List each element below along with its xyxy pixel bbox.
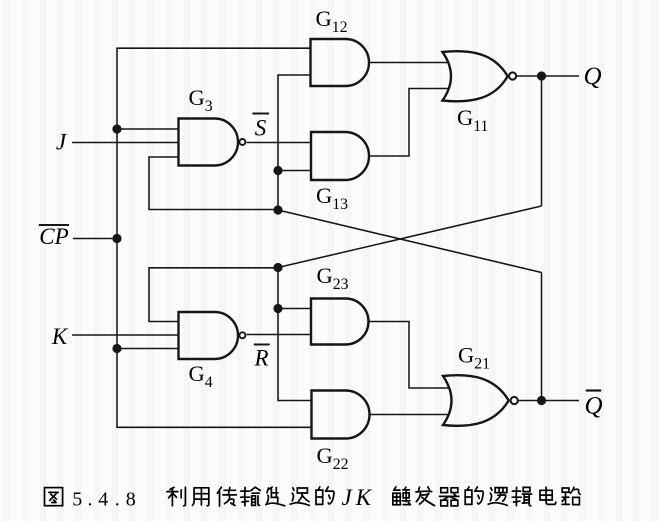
svg-text:.: . <box>88 489 93 511</box>
wire G12 output to G11 <box>369 62 449 64</box>
label K input <box>51 324 69 349</box>
nor-gate G11 <box>443 51 517 101</box>
wire Qbar-net vertical <box>278 75 310 210</box>
wire CP tap to G3 <box>117 128 179 130</box>
node Qbar-net G13 junction <box>273 166 282 175</box>
wire Q output <box>517 75 579 77</box>
label G21 <box>458 343 490 373</box>
svg-text:CP: CP <box>39 224 68 249</box>
label G13 <box>316 183 348 213</box>
node CP junction <box>112 234 121 243</box>
wire J input <box>72 142 179 144</box>
wire R-bar from G4 to G23 <box>247 334 311 336</box>
label G11 <box>457 105 488 135</box>
node CP-G4 junction <box>112 344 121 353</box>
and-gate G22 <box>312 391 370 439</box>
wire Q-bar output <box>519 400 580 402</box>
label G23 <box>317 263 349 293</box>
node Q-bar output junction <box>537 396 546 405</box>
wire CP to G12 top input <box>117 47 310 49</box>
wire S-bar from G3 to G13 <box>247 142 311 144</box>
wire CP to G22 bottom input <box>117 426 312 428</box>
wire CP left rail <box>116 48 118 429</box>
and-gate G23 <box>311 299 369 345</box>
nand-gate G4 <box>179 312 246 359</box>
label S-bar <box>252 114 269 141</box>
wire G22 output to G21 <box>370 414 449 416</box>
wire Qbar vertical to output node <box>541 273 543 402</box>
wire K input <box>72 334 179 336</box>
label Q-bar output <box>584 391 602 420</box>
svg-text:Q: Q <box>584 393 602 420</box>
svg-text:K: K <box>51 324 69 349</box>
label Q output <box>583 63 601 90</box>
wire Qbar diagonal crossover <box>278 210 542 273</box>
wire Q diagonal crossover <box>278 206 542 268</box>
label G22 <box>317 443 349 473</box>
node Q-net feedback junction <box>273 263 282 272</box>
node Q output junction <box>537 71 546 80</box>
label G4 <box>189 361 213 391</box>
wire G23 output to G21 <box>370 322 449 389</box>
wire G3 feedback loop <box>149 157 278 210</box>
label R-bar <box>253 345 269 371</box>
wire Qbar-net to G13 lower input <box>278 170 311 172</box>
label G12 <box>316 6 348 36</box>
nand-gate G3 <box>179 119 246 166</box>
wire Q-net to G23 upper input <box>278 308 311 310</box>
svg-text:JK: JK <box>342 485 376 510</box>
svg-text:Q: Q <box>583 63 601 90</box>
wire CP input <box>73 238 117 240</box>
and-gate G12 <box>311 39 369 86</box>
svg-text:R: R <box>253 346 268 371</box>
svg-text:.: . <box>115 489 120 511</box>
wire CP tap to G4 <box>117 348 179 350</box>
svg-text:S: S <box>255 116 267 141</box>
node Qbar-net feedback junction <box>273 205 282 214</box>
label CP input <box>39 224 69 249</box>
svg-text:8: 8 <box>126 489 136 511</box>
label J input <box>56 130 68 155</box>
wire Q vertical to output node <box>541 76 543 206</box>
wire G13 output to G11 <box>369 89 448 157</box>
wire G4 feedback loop <box>149 268 278 322</box>
svg-text:4: 4 <box>98 489 108 511</box>
wire Q-net vertical <box>278 268 312 401</box>
nor-gate G21 <box>443 375 518 426</box>
node Q-net G23 junction <box>273 304 282 313</box>
svg-text:5: 5 <box>72 489 82 511</box>
svg-text:J: J <box>56 130 68 155</box>
and-gate G13 <box>311 132 369 180</box>
label G3 <box>189 85 213 115</box>
node CP-G3 junction <box>112 124 121 133</box>
caption figure 5.4.8 <box>45 485 581 510</box>
